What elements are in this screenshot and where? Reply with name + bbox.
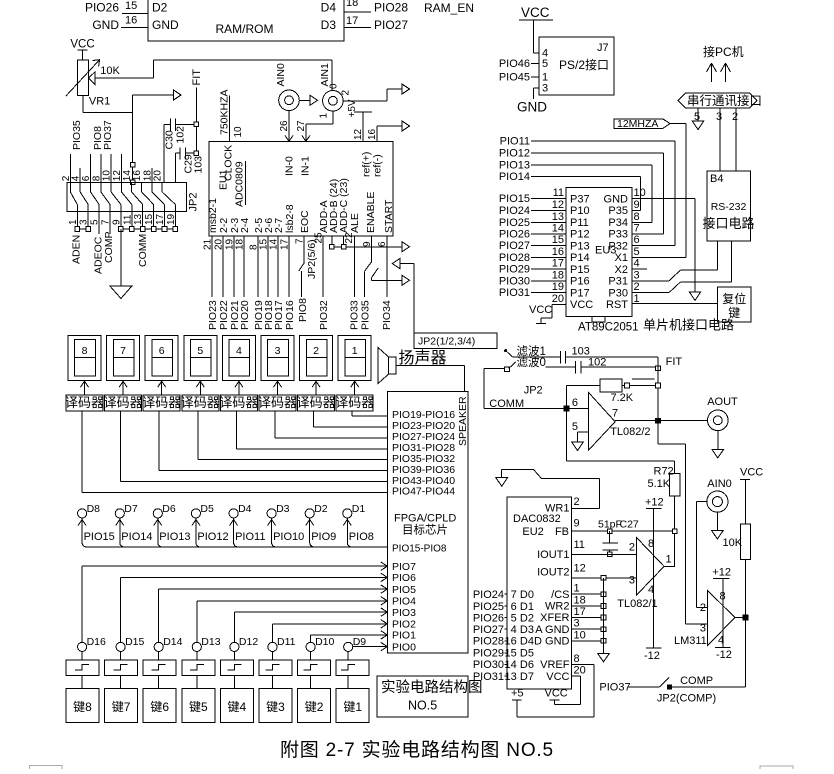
ground AIN0 (right)	[712, 512, 724, 539]
wire J7 pin4	[533, 52, 539, 54]
svg-text:ENABLE: ENABLE	[365, 192, 377, 233]
power +5V (ref+)	[347, 99, 372, 141]
svg-text:译码器: 译码器	[181, 395, 220, 410]
IC DAC0832 EU2	[507, 497, 571, 689]
svg-text:PIO14: PIO14	[121, 531, 152, 543]
ADC control pin names	[299, 178, 395, 233]
svg-text:P31: P31	[608, 276, 628, 288]
ADC data pin numbers	[203, 238, 291, 250]
svg-text:11: 11	[553, 187, 564, 199]
svg-text:PIO1: PIO1	[392, 630, 416, 642]
label 接PC机	[703, 44, 744, 59]
svg-text:VCC: VCC	[70, 39, 94, 51]
svg-text:PIO25: PIO25	[499, 217, 530, 229]
svg-text:6: 6	[634, 234, 640, 246]
wire AIN0 to LM311 pin2	[696, 502, 707, 608]
svg-text:D2: D2	[152, 1, 168, 15]
svg-text:P33: P33	[608, 229, 628, 241]
svg-text:20: 20	[153, 170, 164, 182]
arrow to JP2(1/2,3/4)	[392, 259, 414, 333]
svg-text:LM311: LM311	[674, 635, 707, 647]
svg-text:译码器: 译码器	[104, 395, 143, 410]
svg-text:3: 3	[629, 575, 635, 587]
svg-text:PIO3: PIO3	[392, 607, 416, 619]
svg-text:实验电路结构图: 实验电路结构图	[381, 679, 483, 696]
svg-text:PIO12: PIO12	[499, 148, 530, 160]
svg-text:26: 26	[279, 120, 290, 132]
label JP2 (left block)	[188, 193, 200, 212]
svg-text:GND: GND	[517, 100, 547, 115]
svg-text:17: 17	[552, 258, 564, 270]
svg-text:RST: RST	[606, 299, 628, 311]
svg-text:JP2: JP2	[188, 193, 200, 212]
svg-text:XFER: XFER	[540, 612, 569, 624]
svg-text:16: 16	[367, 128, 378, 140]
svg-text:PIO26: PIO26	[473, 612, 504, 624]
label 12MHZA flag	[614, 118, 686, 257]
svg-text:P12: P12	[570, 229, 590, 241]
svg-text:+5V: +5V	[347, 99, 358, 117]
ground AOUT	[712, 431, 724, 458]
svg-text:译码器: 译码器	[297, 395, 336, 410]
wire PIO46	[499, 58, 539, 70]
svg-text:D15: D15	[125, 636, 144, 648]
svg-text:PIO26: PIO26	[499, 228, 530, 240]
svg-text:D5: D5	[520, 648, 534, 660]
wire ref- to arrow	[367, 121, 410, 142]
svg-text:FIT: FIT	[666, 356, 683, 368]
op-amp TL082/2	[572, 392, 651, 450]
speaker 扬声器	[378, 348, 465, 392]
net COMP (JP2)	[103, 211, 115, 263]
svg-text:VCC: VCC	[740, 467, 763, 479]
svg-text:FPGA/CPLD: FPGA/CPLD	[394, 513, 456, 525]
svg-text:D4: D4	[321, 1, 337, 15]
svg-text:VCC: VCC	[570, 299, 593, 311]
svg-text:PIO0: PIO0	[392, 641, 416, 653]
DAC right pin numbers	[574, 496, 586, 677]
capacitor C30 102	[164, 118, 197, 182]
wire LM311 pin3	[685, 623, 707, 625]
power VCC (10K)	[740, 467, 763, 525]
svg-text:PIO27: PIO27	[473, 624, 504, 636]
svg-text:D3: D3	[321, 18, 337, 32]
svg-text:DAC0832: DAC0832	[513, 513, 561, 525]
svg-text:D5: D5	[200, 503, 214, 515]
wire WR1 loop	[496, 469, 600, 508]
wires CS WR2 XFER AGND DGND	[571, 578, 609, 662]
svg-text:12: 12	[353, 128, 364, 140]
svg-text:PIO4: PIO4	[392, 596, 416, 608]
JP2 top pin numbers	[61, 170, 164, 182]
label RAM_EN	[424, 1, 474, 15]
svg-text:PIO27: PIO27	[374, 18, 408, 32]
connector AOUT	[707, 396, 738, 431]
wire pin18 PIO28	[344, 0, 408, 15]
svg-text:PIO14: PIO14	[499, 171, 530, 183]
arrow AIN0 to AIN1	[299, 95, 317, 105]
svg-text:扬声器: 扬声器	[399, 349, 447, 367]
svg-text:2: 2	[313, 345, 319, 357]
svg-text:P14: P14	[570, 252, 590, 264]
svg-text:3: 3	[542, 83, 548, 95]
svg-text:D13: D13	[201, 636, 220, 648]
wire P32	[632, 245, 675, 247]
capacitor C27 51pF	[598, 519, 639, 557]
svg-text:RAM_EN: RAM_EN	[424, 1, 474, 15]
svg-text:EU2: EU2	[522, 526, 543, 538]
svg-text:7.2K: 7.2K	[611, 392, 634, 404]
svg-text:16: 16	[125, 15, 137, 27]
svg-text:START: START	[383, 199, 395, 233]
svg-text:PIO15-PIO8: PIO15-PIO8	[392, 544, 447, 555]
svg-text:7: 7	[612, 408, 618, 420]
svg-text:P34: P34	[608, 217, 628, 229]
svg-text:-12: -12	[716, 649, 732, 661]
IC RAM/ROM	[148, 0, 344, 41]
svg-text:P15: P15	[570, 264, 590, 276]
svg-text:3: 3	[716, 111, 722, 123]
svg-text:17: 17	[574, 606, 586, 618]
svg-text:PIO11: PIO11	[235, 531, 265, 543]
svg-text:键7: 键7	[112, 700, 131, 714]
svg-text:750KHZA: 750KHZA	[219, 89, 231, 135]
svg-text:PIO47-PIO44: PIO47-PIO44	[392, 486, 455, 498]
svg-text:17: 17	[346, 15, 358, 27]
wires PIO15/24-31 to EU3	[499, 193, 566, 299]
svg-text:22: 22	[344, 232, 355, 244]
LEDs D16-D9	[78, 636, 367, 652]
svg-text:接口电路: 接口电路	[702, 216, 754, 231]
svg-text:NO.5: NO.5	[408, 699, 437, 713]
wire serial pin3	[719, 108, 721, 171]
svg-text:D6: D6	[520, 659, 534, 671]
svg-text:X1: X1	[615, 252, 628, 264]
box NO.5 title	[377, 676, 483, 717]
svg-text:PIO46: PIO46	[499, 58, 530, 70]
svg-text:IN-0: IN-0	[284, 156, 296, 176]
wire JP2 col12 riser	[121, 154, 123, 183]
svg-text:PIO9: PIO9	[311, 531, 336, 543]
svg-text:PIO13: PIO13	[499, 160, 530, 172]
wire FIT node vertical	[656, 357, 661, 421]
svg-text:14: 14	[552, 222, 564, 234]
svg-text:8: 8	[82, 345, 88, 357]
svg-text:IOUT1: IOUT1	[537, 549, 569, 561]
svg-text:PIO20: PIO20	[239, 300, 251, 330]
7-segment displays 8..1	[68, 335, 371, 380]
wire P35	[632, 209, 641, 211]
power VCC (VR1)	[70, 39, 94, 61]
LEDs D8-D1	[78, 503, 366, 518]
svg-text:PIO26: PIO26	[85, 1, 119, 15]
svg-text:3: 3	[275, 345, 281, 357]
FPGA row PIO15-PIO8	[392, 544, 447, 555]
svg-text:接PC机: 接PC机	[703, 44, 744, 59]
svg-text:2: 2	[341, 90, 352, 96]
switch 滤波1 + cap 103	[505, 345, 658, 364]
svg-text:D1: D1	[520, 601, 534, 613]
svg-text:0: 0	[329, 83, 340, 89]
svg-text:COMP: COMP	[103, 232, 115, 264]
svg-text:9: 9	[574, 518, 580, 530]
svg-text:B4: B4	[710, 173, 723, 185]
svg-text:1: 1	[634, 293, 640, 305]
wire JP2 col8 riser	[100, 154, 102, 183]
svg-text:RS-232: RS-232	[711, 201, 747, 213]
svg-text:AT89C2051: AT89C2051	[578, 322, 639, 334]
svg-text:GND: GND	[152, 18, 179, 32]
wire pin15 PIO26	[85, 0, 148, 15]
svg-text:5: 5	[197, 345, 203, 357]
svg-text:P17: P17	[570, 287, 590, 299]
svg-text:P37: P37	[570, 193, 590, 205]
ground TL082/2 pin5	[572, 432, 589, 450]
wiper arrow VR1	[89, 72, 154, 85]
connector J7 PS/2	[539, 37, 614, 95]
svg-text:12: 12	[552, 199, 564, 211]
IC ADC0809 EU1	[209, 142, 393, 237]
svg-text:PIO6: PIO6	[392, 572, 416, 584]
wire AIN0 to IN-0	[279, 111, 290, 140]
svg-text:PIO24: PIO24	[499, 205, 530, 217]
resistor VR1 10K	[66, 60, 121, 108]
svg-text:+12: +12	[645, 497, 664, 509]
wire START PIO34	[381, 236, 393, 330]
svg-text:PIO35: PIO35	[71, 120, 83, 150]
svg-text:PIO11: PIO11	[500, 136, 530, 148]
switch P30 to RS-232	[632, 241, 732, 293]
svg-text:GND: GND	[92, 18, 119, 32]
svg-text:D4: D4	[520, 636, 534, 648]
JP2 bottom pin numbers	[68, 213, 177, 225]
svg-text:PIO16: PIO16	[284, 300, 296, 330]
svg-text:7: 7	[511, 589, 517, 601]
svg-text:WR1: WR1	[545, 503, 569, 515]
wire out branch to LM311	[658, 421, 685, 624]
svg-text:VREF: VREF	[540, 659, 570, 671]
wire JP2 col6 riser	[90, 154, 92, 183]
wire VCC (DAC)	[545, 676, 581, 704]
wire JP2 col10 riser	[110, 154, 112, 183]
svg-text:D16: D16	[87, 636, 106, 648]
svg-text:5: 5	[572, 421, 578, 433]
wire PIO45	[499, 72, 539, 84]
svg-text:IN-1: IN-1	[300, 156, 312, 176]
svg-text:P32: P32	[608, 240, 628, 252]
svg-text:103: 103	[193, 156, 205, 174]
svg-text:15: 15	[505, 648, 517, 660]
svg-text:PIO28: PIO28	[473, 636, 504, 648]
IC FPGA/CPLD	[388, 391, 469, 653]
svg-text:P11: P11	[570, 217, 589, 229]
svg-text:7: 7	[634, 222, 640, 234]
svg-text:19: 19	[552, 281, 564, 293]
svg-text:11: 11	[574, 539, 585, 551]
wire COMM to R72	[567, 409, 675, 474]
svg-text:键5: 键5	[189, 700, 208, 714]
switch P31 to RS-232	[632, 241, 718, 281]
svg-text:COMM: COMM	[137, 234, 149, 267]
wire JP2 col2 riser	[69, 154, 71, 183]
svg-text:EU1: EU1	[218, 169, 230, 190]
svg-text:D3: D3	[520, 624, 534, 636]
svg-text:AIN1: AIN1	[319, 63, 331, 87]
debounce boxes x8	[66, 652, 369, 689]
connector AIN1 (top)	[319, 63, 352, 119]
svg-text:D2: D2	[314, 503, 328, 515]
svg-text:PIO37: PIO37	[599, 682, 630, 694]
svg-text:PIO28: PIO28	[374, 1, 408, 15]
svg-text:1: 1	[666, 554, 672, 566]
op-amp LM311	[674, 591, 735, 647]
wire VREF +5	[511, 664, 594, 717]
svg-text:18: 18	[574, 595, 586, 607]
svg-text:ADC0809: ADC0809	[234, 161, 246, 207]
wire pin16 GND	[92, 15, 148, 33]
svg-text:C27: C27	[620, 519, 639, 531]
resistor 7.2K feedback	[567, 379, 659, 409]
svg-text:6: 6	[572, 397, 578, 409]
svg-text:VR1: VR1	[89, 95, 110, 107]
svg-text:PIO35: PIO35	[359, 300, 371, 330]
svg-text:18: 18	[346, 0, 358, 9]
svg-text:16: 16	[505, 636, 517, 648]
wire col14 riser / FIT-arrow net	[130, 90, 181, 185]
labels AT89C2051	[578, 318, 734, 334]
wire TL082/1 out	[664, 565, 675, 567]
FPGA name	[394, 513, 456, 537]
svg-text:JP2(1/2,3/4): JP2(1/2,3/4)	[418, 336, 475, 348]
svg-text:4: 4	[511, 624, 517, 636]
connector AIN0 (right)	[707, 478, 732, 512]
svg-text:+5: +5	[511, 688, 524, 700]
svg-text:RAM/ROM: RAM/ROM	[216, 22, 274, 36]
svg-text:P10: P10	[570, 205, 590, 217]
svg-text:目标芯片: 目标芯片	[402, 523, 448, 537]
svg-text:P30: P30	[608, 287, 628, 299]
svg-text:串行通讯接口: 串行通讯接口	[687, 93, 762, 108]
svg-text:IOUT2: IOUT2	[537, 567, 569, 579]
wires PIO11-PIO14 to EU3	[499, 136, 675, 246]
svg-text:PIO13: PIO13	[159, 531, 190, 543]
wire wiper to AIN1	[154, 60, 332, 90]
wire filter left down	[484, 369, 505, 409]
svg-text:12: 12	[574, 563, 586, 575]
svg-text:PIO10: PIO10	[273, 531, 304, 543]
svg-text:16: 16	[552, 246, 564, 258]
svg-text:PIO30: PIO30	[473, 659, 504, 671]
svg-text:D2: D2	[520, 612, 534, 624]
switch ENABLE PIO35	[359, 236, 409, 330]
node ADD-B ADD-C arrow	[330, 236, 410, 252]
svg-text:2: 2	[732, 111, 738, 123]
svg-text:TL082/1: TL082/1	[617, 598, 657, 610]
svg-text:20: 20	[574, 665, 586, 677]
switch 滤波0 + cap 102	[505, 356, 661, 374]
svg-text:滤波0: 滤波0	[517, 356, 546, 369]
svg-text:复位: 复位	[722, 291, 746, 306]
svg-text:18: 18	[552, 269, 564, 281]
svg-text:AIN0: AIN0	[275, 63, 287, 87]
resistor 10K (right)	[723, 524, 751, 617]
svg-text:PIO45: PIO45	[499, 72, 530, 84]
svg-text:-12: -12	[644, 650, 660, 662]
svg-text:PIO15: PIO15	[499, 193, 530, 205]
svg-text:PIO12: PIO12	[197, 531, 228, 543]
label PIO37 (JP2)	[102, 120, 114, 150]
wire ALE PIO33	[348, 236, 360, 330]
svg-text:10: 10	[233, 126, 244, 138]
svg-text:FIT: FIT	[191, 69, 203, 86]
arrowhead IN-0	[285, 136, 293, 142]
IC B4 RS-232	[702, 171, 754, 241]
wire P34	[632, 221, 652, 223]
svg-text:D GND: D GND	[534, 636, 570, 648]
net COMM (filter)	[484, 398, 588, 411]
svg-text:+12: +12	[712, 567, 731, 579]
svg-text:VCC: VCC	[546, 671, 569, 683]
wire AIN1 out to arrow	[343, 84, 409, 101]
net ADEOC	[92, 211, 104, 274]
svg-text:译码器: 译码器	[65, 395, 104, 410]
switch JP2(5/6) on EOC	[297, 236, 318, 322]
svg-text:20: 20	[552, 293, 564, 305]
wire JP2 col4 riser	[79, 168, 81, 182]
svg-text:2: 2	[574, 496, 580, 508]
svg-text:PIO37: PIO37	[102, 120, 114, 150]
svg-text:附图 2-7 实验电路结构图 NO.5: 附图 2-7 实验电路结构图 NO.5	[280, 739, 554, 761]
svg-text:译码器: 译码器	[335, 395, 374, 410]
ADC data pin names	[207, 198, 296, 233]
svg-text:JP2(COMP): JP2(COMP)	[657, 693, 716, 705]
svg-text:D14: D14	[163, 636, 182, 648]
svg-text:GND: GND	[604, 193, 629, 205]
svg-text:PIO25: PIO25	[473, 601, 504, 613]
svg-text:2: 2	[700, 602, 706, 614]
svg-text:键8: 键8	[73, 700, 92, 714]
node FIT	[191, 69, 203, 156]
svg-text:7: 7	[120, 345, 126, 357]
svg-text:D10: D10	[315, 636, 334, 648]
ground serial pin5	[692, 108, 704, 130]
FPGA rows PIO7-PIO0	[381, 561, 416, 653]
svg-text:10K: 10K	[723, 537, 743, 549]
label FIT (right)	[666, 356, 683, 368]
svg-text:SPEAKER: SPEAKER	[457, 396, 469, 446]
label PIO35	[71, 120, 83, 150]
arrows to PC	[707, 63, 731, 82]
svg-text:键: 键	[728, 306, 740, 320]
svg-text:51pF: 51pF	[598, 519, 622, 531]
wires ADC data to PIO	[212, 236, 289, 297]
wires decoders to FPGA	[82, 411, 388, 493]
svg-text:PIO32: PIO32	[318, 300, 330, 330]
label PIO8 (JP2)	[92, 126, 104, 150]
svg-text:键4: 键4	[228, 700, 247, 714]
svg-text:译码器: 译码器	[142, 395, 181, 410]
svg-text:12MHZA: 12MHZA	[617, 118, 658, 130]
svg-text:27: 27	[296, 120, 307, 132]
gray box bottom-right	[760, 766, 793, 770]
FPGA left row labels	[392, 409, 455, 498]
svg-text:D11: D11	[277, 636, 296, 648]
svg-text:译码器: 译码器	[258, 395, 297, 410]
svg-text:D7: D7	[520, 671, 534, 683]
wires LEDs to FPGA PIO15-PIO8	[78, 518, 388, 547]
net ADEN	[71, 211, 91, 264]
svg-text:AOUT: AOUT	[707, 396, 738, 408]
